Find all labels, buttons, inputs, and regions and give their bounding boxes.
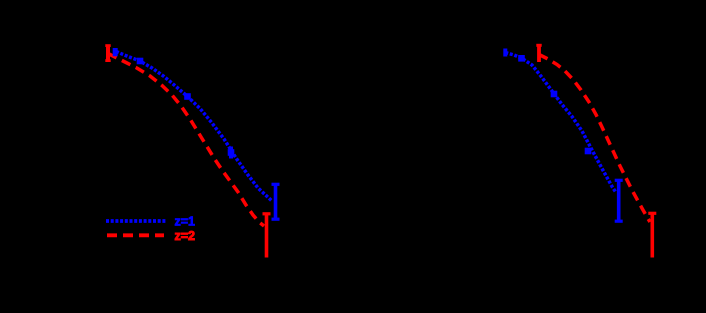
blue dotted curve z=1 (left panel) bbox=[116, 52, 272, 202]
blue marker point 3 (right) bbox=[551, 91, 558, 98]
blue dotted curve z=1 (right panel) bbox=[505, 53, 616, 193]
blue marker point 3 (left) bbox=[184, 93, 191, 100]
blue error bar (right panel, last point) bbox=[615, 180, 623, 222]
blue marker point 2 (left) bbox=[137, 58, 144, 65]
svg-text:z=2: z=2 bbox=[175, 229, 196, 243]
red error bar (left panel, last point, lower limit no bottom cap) bbox=[263, 214, 271, 258]
red dashed curve z=2 (right panel) bbox=[539, 55, 650, 223]
red error bar (left panel, first point) bbox=[105, 45, 110, 62]
red dashed curve z=2 (left panel) bbox=[108, 54, 264, 227]
legend sample line z=2 (red dashed) bbox=[107, 233, 164, 237]
blue marker+errorbar point 4 (left) bbox=[228, 149, 235, 156]
red error bar (right panel, last point, lower limit no bottom cap) bbox=[648, 213, 656, 258]
blue marker+errorbar point 1 (right) bbox=[503, 49, 507, 57]
blue marker point 2 (right) bbox=[518, 55, 525, 62]
blue marker point 4 (right) bbox=[585, 148, 592, 155]
blue marker+errorbar point 1 (left) bbox=[113, 48, 118, 56]
blue error bar (left panel, last point) bbox=[272, 184, 280, 220]
red error bar (right panel, first point) bbox=[536, 45, 541, 62]
svg-text:z=1: z=1 bbox=[175, 215, 196, 229]
legend sample line z=1 (blue dotted) bbox=[106, 219, 166, 223]
